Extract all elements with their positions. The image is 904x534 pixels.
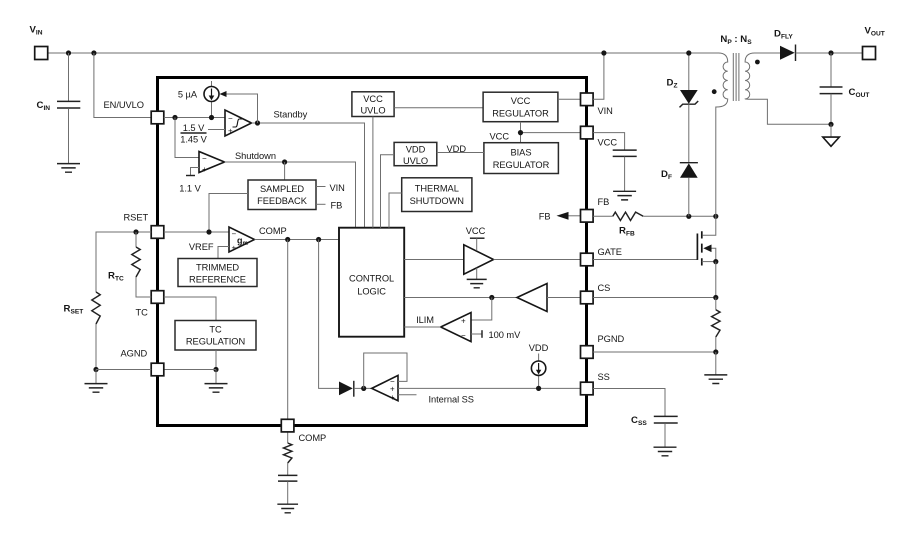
resistor R_sense [715,298,717,310]
pin GATE [581,253,594,266]
wire VCC node [521,122,581,143]
svg-text:TC: TC [209,325,222,335]
capacitor COMP [278,463,297,504]
op-amp ILIM comparator [441,313,471,342]
current source VDD [531,354,545,389]
svg-text:−: − [202,154,207,163]
wire COMP to SS diode [319,240,339,389]
capacitor VCC bypass [593,133,637,192]
transformer core [733,53,739,101]
pin TC [151,291,164,304]
svg-text:SS: SS [598,372,610,382]
svg-text:FB: FB [331,201,343,211]
junction ILIM branch [489,295,494,300]
svg-text:FB: FB [539,211,551,221]
wire COMP down [287,240,289,444]
wire EN internal [164,117,225,119]
ground C_IN [57,164,80,173]
pin COMP [281,419,294,432]
svg-text:VCC: VCC [490,131,510,141]
block VDD UVLO [394,142,437,166]
op-amp soft start clamp [372,375,398,402]
svg-text:EN/UVLO: EN/UVLO [104,100,144,110]
wire RTC top [135,232,137,247]
resistor R_TC [132,247,140,277]
ground PGND [704,375,727,384]
block BIAS REGULATOR [484,143,559,174]
op-amp shutdown comparator [199,152,225,175]
svg-text:REGULATION: REGULATION [186,337,245,347]
reference 1.1 V [186,168,199,176]
wire SS external [593,389,665,417]
junction shutdown/sampled-feedback [282,159,287,164]
svg-text:VDD: VDD [406,145,426,155]
svg-text:REFERENCE: REFERENCE [189,275,246,285]
wire thermal shutdown down [389,193,402,228]
svg-text:+: + [461,317,466,326]
block VCC UVLO [352,92,394,117]
polarity dot primary [712,89,717,94]
svg-text:VIN: VIN [330,183,345,193]
svg-text:Internal SS: Internal SS [429,394,474,404]
wire zener to DF [688,104,690,162]
current source I1 5uA [204,81,219,118]
svg-text:1.1 V: 1.1 V [179,184,201,194]
wire TC regulation ground [215,350,217,370]
svg-text:ILIM: ILIM [416,315,434,325]
block CONTROL LOGIC [339,228,404,337]
wire RSET sense to sampled feedback [209,194,248,233]
svg-text:UVLO: UVLO [360,106,385,116]
junction RTC top [133,229,138,234]
pin VIN [581,93,594,106]
svg-text:PGND: PGND [598,334,625,344]
wire VCC UVLO to VCC regulator [394,107,483,109]
wire TC ground stub [215,370,217,384]
svg-text:VCC: VCC [511,96,531,106]
junction FB clamp [686,214,691,219]
wire diode to amp [354,387,372,389]
svg-text:VCC: VCC [598,138,618,148]
ground output open style [823,124,840,146]
wire VIN external [593,53,604,99]
wire SS feedback loop [364,353,407,388]
wire VIN stub [316,186,326,188]
op-amp gm error amplifier [229,227,255,253]
terminal VOUT [863,47,876,60]
wire CS external [593,297,716,299]
transformer T1 primary [716,53,728,216]
wire control to driver [404,259,464,261]
node VIN rail wire [48,52,719,54]
svg-text:THERMAL: THERMAL [415,184,459,194]
wire output [796,52,863,54]
wire FB stub [316,203,326,205]
svg-text:TC: TC [136,308,149,318]
wire PGND external [593,351,716,353]
svg-text:+: + [228,127,233,136]
op-amp CS buffer [517,284,547,312]
svg-text:VIN: VIN [598,106,613,116]
junction AGND external [93,367,98,372]
junction shutdown branch [172,115,177,120]
op-amp standby Schmitt comparator [225,110,252,136]
svg-text:CS: CS [598,283,611,293]
wire driver to GATE pin [494,259,581,261]
svg-text:GATE: GATE [598,247,622,257]
svg-text:SAMPLED: SAMPLED [260,184,304,194]
wire AGND ground stub [95,370,97,384]
wire threshold to + [208,129,225,131]
svg-text:1.45 V: 1.45 V [180,134,207,144]
wire RTC bottom [136,277,151,297]
wire AGND internal [164,369,216,371]
wire VCC UVLO down [372,117,374,228]
svg-text:REGULATOR: REGULATOR [493,160,550,170]
block TRIMMED REFERENCE [178,259,257,287]
wire VDD UVLO down [381,155,395,228]
wire VREF [218,247,229,259]
junction COUT [828,50,833,55]
junction C_IN [66,50,71,55]
wire source down [715,262,717,298]
wire AGND external [96,369,151,371]
transistor Q1 NMOS [697,216,715,265]
junction CS sense [713,295,718,300]
svg-text:VDD: VDD [447,144,467,154]
block THERMAL SHUTDOWN [402,178,472,212]
ground AGND external [85,384,108,393]
wire CS comparator output [404,297,517,299]
pin SS [581,382,594,395]
junction RSET sense [206,229,211,234]
svg-text:Shutdown: Shutdown [235,151,276,161]
pin RSET [151,226,164,239]
ground TC regulation [205,384,228,393]
junction zener rail [686,50,691,55]
svg-text:LOGIC: LOGIC [357,287,386,297]
svg-text:REGULATOR: REGULATOR [492,109,549,119]
wire SS net [398,387,580,389]
wire EN/UVLO [94,53,151,118]
wire RSET external [96,232,151,292]
capacitor C_IN [57,53,80,163]
diode D_FLY [780,45,796,62]
block SAMPLED FEEDBACK [248,180,316,210]
reference 100 mV [471,330,482,338]
wire ILIM plus input [471,298,492,321]
wire TC [164,297,216,321]
capacitor C_OUT [820,53,843,124]
svg-text:VCC: VCC [363,94,383,104]
diode SS [339,381,354,397]
terminal VIN [35,47,48,60]
junction standby [255,120,260,125]
diode D_F [680,163,698,178]
wire hysteresis feedback [225,94,258,123]
svg-text:CONTROL: CONTROL [349,274,394,284]
svg-text:+: + [390,393,395,402]
pin AGND [151,363,164,376]
wire internal SS stub [398,394,417,396]
polarity dot secondary [755,60,760,65]
wire shutdown output [225,162,356,228]
resistor R_FB [613,212,643,220]
junction PGND [713,349,718,354]
svg-text:+: + [232,244,237,253]
pin VCC [581,126,594,139]
wire COMP net [255,239,340,241]
pin FB [581,210,594,223]
wire standby output [252,123,365,228]
junction SS feedback [361,386,366,391]
junction source [713,259,718,264]
ground COMP [277,504,298,513]
junction 5uA [209,115,214,120]
svg-text:COMP: COMP [259,226,287,236]
wire VCC regulator to VIN pin [558,98,581,100]
arrow FB internal [557,212,569,220]
wire PGND ground [715,352,717,375]
transformer T1 secondary [745,53,831,124]
junction COMP SS branch [316,237,321,242]
wire VIN to zener [688,53,690,90]
block VCC REGULATOR [483,92,558,122]
resistor R_SET [92,292,100,324]
wire RSET bottom [95,324,97,370]
op-amp gate driver [464,238,494,288]
svg-text:VDD: VDD [529,343,549,353]
svg-text:FEEDBACK: FEEDBACK [257,196,308,206]
svg-text:+: + [202,165,207,174]
wire CS pin to buffer [547,297,580,299]
svg-text:−: − [232,230,237,239]
capacitor C_SS [654,416,678,447]
junction switch node [713,214,718,219]
wire DF to switch node [688,178,690,217]
pin PGND [581,346,594,359]
IC block outline [158,78,587,426]
wire FB external [593,215,716,217]
svg-text:BIAS: BIAS [511,148,532,158]
svg-text:−: − [228,114,233,123]
svg-text:5 µA: 5 µA [178,90,198,100]
svg-text:RSET: RSET [124,213,149,223]
svg-text:VCC: VCC [466,226,486,236]
wire ILIM output [404,326,441,328]
wire EN to shutdown comparator [175,118,199,158]
wire to sampled feedback [284,162,286,180]
pin CS [581,291,594,304]
svg-text:1.5 V: 1.5 V [183,123,205,133]
svg-text:−: − [461,331,466,340]
svg-text:100 mV: 100 mV [489,330,522,340]
svg-text:AGND: AGND [121,349,148,359]
diode D_Z zener [680,90,699,107]
svg-text:VREF: VREF [189,242,214,252]
block TC REGULATION [175,321,256,351]
junction output return [828,122,833,127]
junction COMP pin branch [285,237,290,242]
wire GATE external [593,259,697,261]
svg-text:TRIMMED: TRIMMED [196,263,239,273]
junction VCC [518,130,523,135]
svg-text:FB: FB [598,197,610,207]
svg-text:UVLO: UVLO [403,156,428,166]
ground C_SS [654,447,677,456]
svg-text:Standby: Standby [274,110,308,120]
wire VDD UVLO to bias regulator [437,152,484,154]
junction EN branch [91,50,96,55]
junction VIN rail [601,50,606,55]
pin EN/UVLO [151,111,164,124]
svg-text:COMP: COMP [299,433,327,443]
label 1.5V/1.45V threshold [180,123,207,144]
svg-text:SHUTDOWN: SHUTDOWN [410,196,464,206]
ground VCC bypass [613,191,636,200]
wire secondary to diode [755,52,781,54]
junction SS [536,386,541,391]
junction AGND internal [213,367,218,372]
resistor COMP [284,443,292,463]
wire RSET internal [164,231,229,233]
